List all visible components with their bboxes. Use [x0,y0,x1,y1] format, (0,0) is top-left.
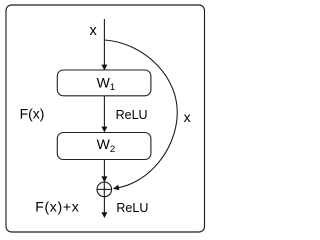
outer rounded frame [6,5,205,232]
arrowhead into adder from skip [112,185,119,192]
arrowhead into W2 [101,127,107,133]
svg-text:x: x [90,23,98,39]
svg-text:F(x): F(x) [20,106,45,122]
svg-text:x: x [184,109,191,125]
svg-text:ReLU: ReLU [116,108,148,122]
adder node (circle with plus) [97,182,112,197]
arrowhead into W1 [101,65,107,71]
skip connection wire (identity) [105,40,178,188]
wire: output [103,197,105,213]
wire W2 to adder [103,160,105,178]
arrowhead output [101,212,107,218]
wire W1 to W2 [103,96,105,127]
svg-text:F(x)+x: F(x)+x [35,199,79,215]
svg-text:ReLU: ReLU [116,201,148,215]
wire: input x into W1 [103,19,105,65]
arrowhead into adder [101,176,107,182]
block W2 [57,133,151,160]
block W1 [57,70,151,96]
